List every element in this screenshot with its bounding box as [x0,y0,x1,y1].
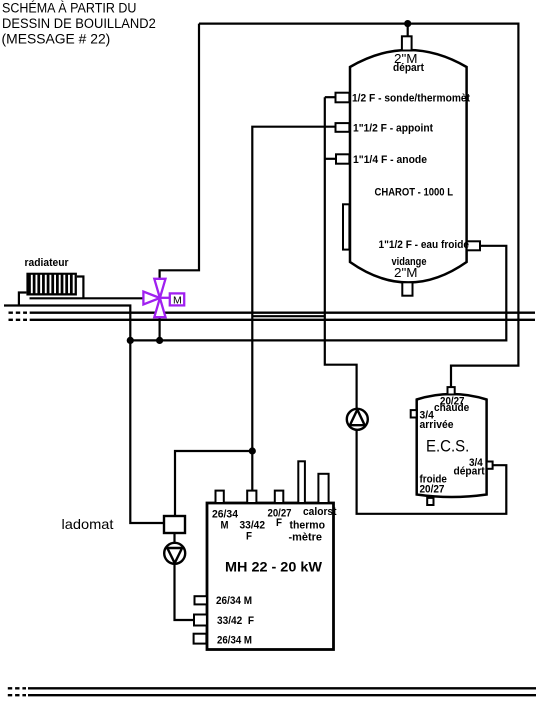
boiler left port 3 [194,634,207,644]
svg-text:2"M: 2"M [394,265,418,280]
svg-text:MH 22 - 20 kW: MH 22 - 20 kW [225,560,322,575]
pipe: main flow line upper [9,312,536,314]
wire: tank column down to ECS pump and depart port [325,97,507,514]
svg-text:F: F [246,531,252,543]
svg-text:(MESSAGE # 22): (MESSAGE # 22) [2,32,111,47]
ECS right port [487,462,493,469]
node: junction dot valve bottom [156,337,163,344]
wire: left riser from top wire down to valve top [160,24,199,279]
wire: radiator right pipe [77,277,84,299]
pipe: main flow line lower [9,319,536,321]
wire: radiator feed line to valve [30,297,144,299]
ECS pump [347,409,368,430]
wire: ladomat pump to boiler port [175,564,194,621]
tank port eau froide [467,241,480,250]
svg-text:1"1/2 F - eau froide: 1"1/2 F - eau froide [379,239,470,251]
svg-text:calorst: calorst [303,506,337,518]
svg-text:arrivée: arrivée [420,419,454,431]
boiler MH22 box [207,503,334,650]
wire: ladomat top link [175,451,252,516]
svg-text:thermo: thermo [290,520,326,532]
valve actuator M box [170,293,184,306]
svg-text:CHAROT - 1000 L: CHAROT - 1000 L [375,186,454,198]
node: junction dot boiler feed [249,447,256,454]
svg-text:DESSIN DE BOUILLAND2: DESSIN DE BOUILLAND2 [2,16,156,31]
tank labels [352,51,470,280]
boiler thermometer well [298,461,305,503]
valve: 3-way mixing valve [143,279,169,317]
svg-text:-mètre: -mètre [289,532,323,544]
wire: valve bottom to lower junction [159,317,161,341]
boiler calorstat [318,474,328,503]
svg-text:radiateur: radiateur [25,257,70,269]
wire: top supply from valve riser to right riser [199,24,518,388]
wire: appoint line from tank to boiler [252,127,335,491]
svg-text:F: F [276,517,282,529]
pipe: bottom line lower [8,694,536,696]
ECS bottom port [427,498,433,505]
wire: return line to ladomat [4,306,164,524]
wire: bottom distribution line to eau froide port [130,246,506,341]
wire: anode port link [325,158,336,160]
boiler top port 3 [275,491,284,503]
boiler left port 1 [195,596,207,604]
ladomat pump [164,543,185,564]
boiler top port 1 [216,491,224,503]
boiler labels [212,506,337,647]
ladomat box [164,516,185,533]
tank left tall port [343,204,349,249]
svg-text:26/34 M: 26/34 M [217,634,252,646]
svg-text:M: M [221,519,229,531]
ECS left port [411,410,417,417]
tank port appoint [336,123,350,132]
svg-text:26/34 M: 26/34 M [216,595,252,607]
wire: radiator left pipe [19,293,27,306]
svg-text:1/2 F - sonde/thermomèt: 1/2 F - sonde/thermomèt [352,92,470,104]
svg-text:1"1/2 F - appoint: 1"1/2 F - appoint [353,123,433,135]
wire: ladomat box to pump [173,533,175,543]
node: junction dot return/ladomat [127,337,134,344]
ECS top port [448,387,455,394]
boiler top port 2 [247,491,256,503]
ECS tank [417,394,487,497]
svg-text:SCHÉMA À PARTIR DU: SCHÉMA À PARTIR DU [2,1,136,16]
title text [2,1,156,47]
svg-text:33/42 F: 33/42 F [217,615,254,627]
pipe: bottom line upper [8,687,536,689]
wire: cross link between risers [252,315,324,317]
svg-text:1"1/4 F - anode: 1"1/4 F - anode [353,154,427,166]
boiler left port 2 [194,615,207,626]
tank bottom port vidange [402,282,412,295]
svg-text:E.C.S.: E.C.S. [426,437,469,456]
svg-text:départ: départ [454,465,486,477]
wire: sonde port link [325,96,336,98]
svg-text:M: M [173,294,182,306]
tank CHAROT 1000L [350,50,467,283]
ECS labels [420,395,486,495]
tank port anode [336,154,349,163]
svg-text:chaude: chaude [434,402,469,414]
svg-text:33/42: 33/42 [240,520,266,532]
svg-text:départ: départ [393,62,424,74]
tank port sonde [336,93,350,103]
svg-text:ladomat: ladomat [62,516,114,532]
radiator [25,257,77,296]
node: junction on top wire above tank [404,20,411,36]
svg-text:20/27: 20/27 [420,484,445,496]
tank top port 2"M [402,36,412,50]
